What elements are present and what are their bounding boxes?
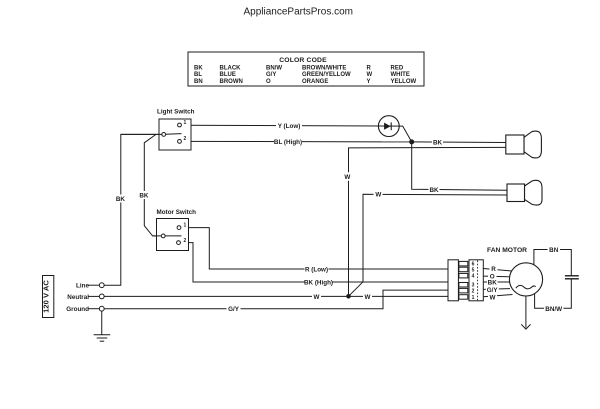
svg-text:2: 2 <box>472 289 475 295</box>
svg-text:5: 5 <box>472 267 475 273</box>
svg-text:G/Y: G/Y <box>266 72 276 78</box>
svg-text:Y (Low): Y (Low) <box>278 123 301 130</box>
svg-text:Line: Line <box>76 283 89 290</box>
svg-text:W: W <box>365 294 371 301</box>
svg-text:BN/W: BN/W <box>545 306 562 313</box>
svg-text:2: 2 <box>184 136 187 142</box>
svg-text:BL: BL <box>194 72 202 78</box>
svg-text:BROWN: BROWN <box>220 79 243 85</box>
svg-text:1: 1 <box>184 223 187 229</box>
svg-text:1: 1 <box>472 295 475 301</box>
svg-text:R: R <box>491 266 496 273</box>
svg-text:BL (High): BL (High) <box>274 139 302 146</box>
svg-text:BLUE: BLUE <box>220 72 236 78</box>
svg-text:O: O <box>266 79 271 85</box>
svg-text:BN: BN <box>549 247 559 254</box>
svg-text:Motor Switch: Motor Switch <box>157 209 197 216</box>
svg-text:BK: BK <box>116 196 126 203</box>
svg-text:RED: RED <box>391 66 404 72</box>
svg-text:BK: BK <box>433 139 443 146</box>
svg-text:BK: BK <box>429 187 439 194</box>
svg-text:AppliancePartsPros.com: AppliancePartsPros.com <box>244 6 354 17</box>
svg-text:BK: BK <box>194 66 203 72</box>
svg-text:BROWN/WHITE: BROWN/WHITE <box>302 66 346 72</box>
svg-text:ORANGE: ORANGE <box>302 79 328 85</box>
svg-text:BK (High): BK (High) <box>304 280 333 287</box>
svg-text:Neutral: Neutral <box>67 294 89 301</box>
svg-text:BK: BK <box>139 193 149 200</box>
svg-text:W: W <box>344 174 350 181</box>
svg-text:2: 2 <box>184 238 187 244</box>
svg-text:W: W <box>490 294 496 301</box>
svg-text:120 V AC: 120 V AC <box>42 280 51 313</box>
svg-text:G/Y: G/Y <box>228 306 240 313</box>
svg-text:FAN MOTOR: FAN MOTOR <box>487 247 527 254</box>
svg-text:COLOR CODE: COLOR CODE <box>279 57 327 64</box>
svg-text:BN: BN <box>194 79 203 85</box>
svg-text:GREEN/YELLOW: GREEN/YELLOW <box>302 72 351 78</box>
svg-text:BK: BK <box>488 280 498 287</box>
svg-text:YELLOW: YELLOW <box>391 79 417 85</box>
svg-text:W: W <box>314 294 320 301</box>
svg-text:BN/W: BN/W <box>266 66 282 72</box>
svg-text:Ground: Ground <box>66 306 89 313</box>
svg-text:1: 1 <box>184 120 187 126</box>
svg-text:R: R <box>367 66 372 72</box>
svg-text:W: W <box>375 192 381 199</box>
svg-text:BLACK: BLACK <box>220 66 242 72</box>
svg-text:Y: Y <box>367 79 371 85</box>
svg-text:R (Low): R (Low) <box>305 267 328 274</box>
svg-text:WHITE: WHITE <box>391 72 410 78</box>
svg-text:Light Switch: Light Switch <box>157 109 195 116</box>
svg-text:4: 4 <box>472 274 475 280</box>
svg-text:W: W <box>367 72 373 78</box>
svg-text:G/Y: G/Y <box>487 287 499 294</box>
